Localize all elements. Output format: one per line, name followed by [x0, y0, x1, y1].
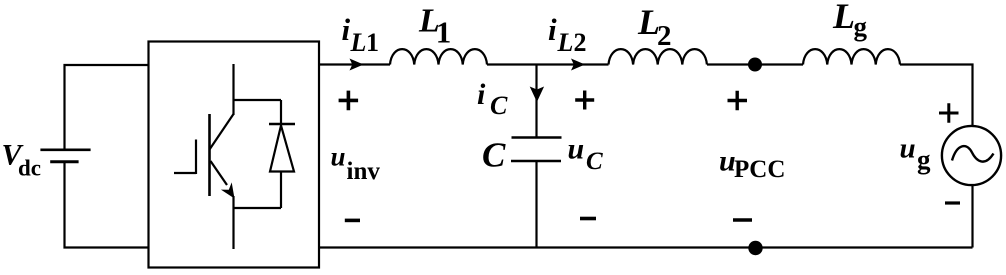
svg-text:u: u: [568, 133, 585, 166]
igbt Q1 emitter lead: [232, 196, 234, 249]
capacitor branch wire bottom: [535, 161, 537, 248]
ac source ug sine: [952, 146, 994, 162]
diode D1 bottom lead: [280, 172, 282, 209]
current arrow iL1: [350, 59, 364, 71]
polarity uPCC minus: [733, 218, 752, 222]
diode D1 top lead: [280, 100, 282, 124]
svg-text:2: 2: [574, 28, 587, 57]
label Vdc: [2, 139, 42, 181]
polarity uinv plus: [339, 91, 359, 111]
svg-text:1: 1: [436, 14, 452, 49]
polarity uC minus: [580, 217, 596, 221]
capacitor C plate bottom: [511, 160, 561, 162]
svg-text:u: u: [900, 133, 916, 165]
inverter U1 box: [149, 42, 320, 268]
junction node PCC bottom: [748, 241, 762, 255]
inductor Lg: [803, 49, 900, 64]
svg-text:g: g: [917, 145, 931, 175]
svg-text:inv: inv: [347, 158, 381, 185]
diode D1 cathode bar: [269, 123, 295, 125]
label C: [482, 136, 506, 175]
label ug: [900, 133, 932, 175]
svg-text:L: L: [557, 28, 574, 57]
polarity ug minus: [945, 201, 960, 204]
svg-text:i: i: [342, 12, 351, 47]
wire L2 to PCC: [707, 63, 803, 65]
wire L1 to capacitor node: [487, 63, 609, 65]
dc source Vdc battery plate long: [40, 149, 90, 152]
capacitor branch wire top: [535, 65, 537, 137]
svg-text:g: g: [854, 12, 868, 42]
dc source Vdc battery plate short: [50, 160, 78, 163]
label iL1: [342, 12, 380, 57]
capacitor C plate top: [512, 136, 562, 138]
wire inverter output: [319, 63, 390, 65]
junction node PCC top: [748, 58, 762, 72]
label uPCC: [719, 144, 785, 183]
igbt Q1 gate lead: [174, 172, 196, 174]
wire Vdc top loop: [65, 65, 150, 149]
igbt Q1 collector rail: [234, 99, 282, 101]
svg-text:dc: dc: [18, 155, 41, 180]
wire Lg to right corner: [900, 65, 973, 128]
wire bottom main: [319, 246, 973, 248]
label L1: [418, 3, 451, 50]
igbt Q1 gate bar: [195, 140, 197, 175]
inductor L2: [609, 49, 707, 64]
diode D1 triangle: [270, 126, 294, 172]
svg-text:i: i: [477, 78, 486, 111]
igbt Q1 collector lead: [232, 64, 234, 115]
svg-text:1: 1: [366, 28, 379, 57]
current arrow iL2: [571, 59, 585, 71]
label Lg: [832, 0, 868, 42]
label uC: [568, 133, 604, 176]
polarity ug plus: [939, 103, 959, 123]
svg-text:C: C: [586, 148, 603, 175]
label iC: [477, 78, 508, 120]
svg-text:i: i: [548, 12, 557, 47]
igbt Q1 collector diagonal: [210, 114, 234, 150]
wire Vdc bottom loop: [65, 162, 150, 248]
polarity uPCC plus: [728, 91, 748, 111]
igbt Q1 body bar: [208, 114, 211, 196]
svg-text:L: L: [350, 28, 367, 57]
label iL2: [548, 12, 587, 57]
svg-text:PCC: PCC: [734, 156, 785, 183]
igbt Q1 emitter arrowhead: [221, 182, 235, 198]
wire ug to bottom corner: [971, 185, 973, 248]
polarity uinv minus: [345, 219, 360, 223]
label L2: [637, 2, 672, 52]
svg-text:C: C: [490, 91, 508, 120]
label uinv: [331, 142, 381, 186]
svg-text:C: C: [482, 136, 506, 175]
igbt Q1 emitter diagonal: [211, 161, 228, 185]
current arrow iC: [530, 87, 544, 103]
inductor L1: [390, 49, 487, 64]
polarity uC plus: [575, 91, 594, 110]
svg-text:u: u: [331, 142, 346, 172]
svg-text:L: L: [832, 0, 855, 36]
igbt Q1 emitter rail: [234, 207, 282, 209]
svg-text:2: 2: [657, 20, 672, 52]
ac source ug circle: [942, 126, 1001, 185]
